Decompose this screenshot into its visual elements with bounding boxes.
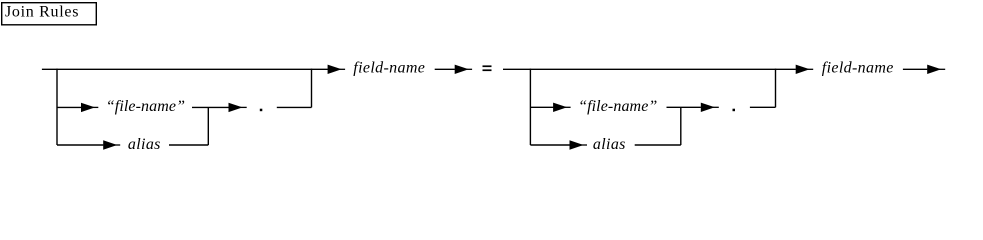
wire junction drop 2	[529, 69, 531, 145]
dot literal 1	[260, 109, 263, 112]
arrow branch file-name 2	[553, 103, 571, 112]
arrow main before field-name 1	[328, 65, 346, 74]
wire alias entry 1	[57, 144, 103, 146]
wire riser alias to branch 1	[207, 107, 209, 145]
equals literal	[483, 65, 492, 71]
wire after field-name 2	[903, 68, 927, 70]
svg-text:alias: alias	[593, 136, 626, 153]
wire main right	[503, 68, 796, 70]
wire branch file-name entry 1	[57, 106, 81, 108]
svg-text:field-name: field-name	[353, 60, 425, 77]
wire after file-name 2	[667, 106, 701, 108]
wire after alias 2	[635, 144, 681, 146]
arrow before dot 2	[701, 103, 719, 112]
wire riser alias to branch 2	[680, 107, 682, 145]
arrow branch file-name 1	[81, 103, 98, 112]
arrow before dot 1	[229, 103, 247, 112]
wire alias entry 2	[530, 144, 569, 146]
arrow alias 1	[103, 140, 120, 149]
svg-text:alias: alias	[128, 136, 161, 153]
svg-text:“file-name”: “file-name”	[578, 98, 657, 115]
arrow after field-name 1	[455, 65, 472, 74]
svg-text:Join Rules: Join Rules	[5, 4, 79, 21]
dot literal 2	[733, 109, 736, 112]
wire branch file-name entry 2	[530, 106, 553, 108]
wire dot to riser 1	[277, 106, 312, 108]
wire dot to riser 2	[750, 106, 776, 108]
wire after file-name 1	[192, 106, 229, 108]
title box Join Rules	[2, 3, 97, 25]
wire main entry	[42, 68, 328, 70]
arrow alias 2	[570, 140, 588, 149]
wire junction drop 1	[56, 69, 58, 145]
arrow main before field-name 2	[796, 65, 814, 74]
wire after alias 1	[169, 144, 208, 146]
wire after field-name 1	[435, 68, 455, 70]
wire riser branch to main 1	[311, 69, 313, 108]
wire riser branch to main 2	[775, 69, 777, 108]
svg-text:“file-name”: “file-name”	[106, 98, 185, 115]
arrow final end	[927, 65, 945, 74]
svg-text:field-name: field-name	[822, 60, 894, 77]
